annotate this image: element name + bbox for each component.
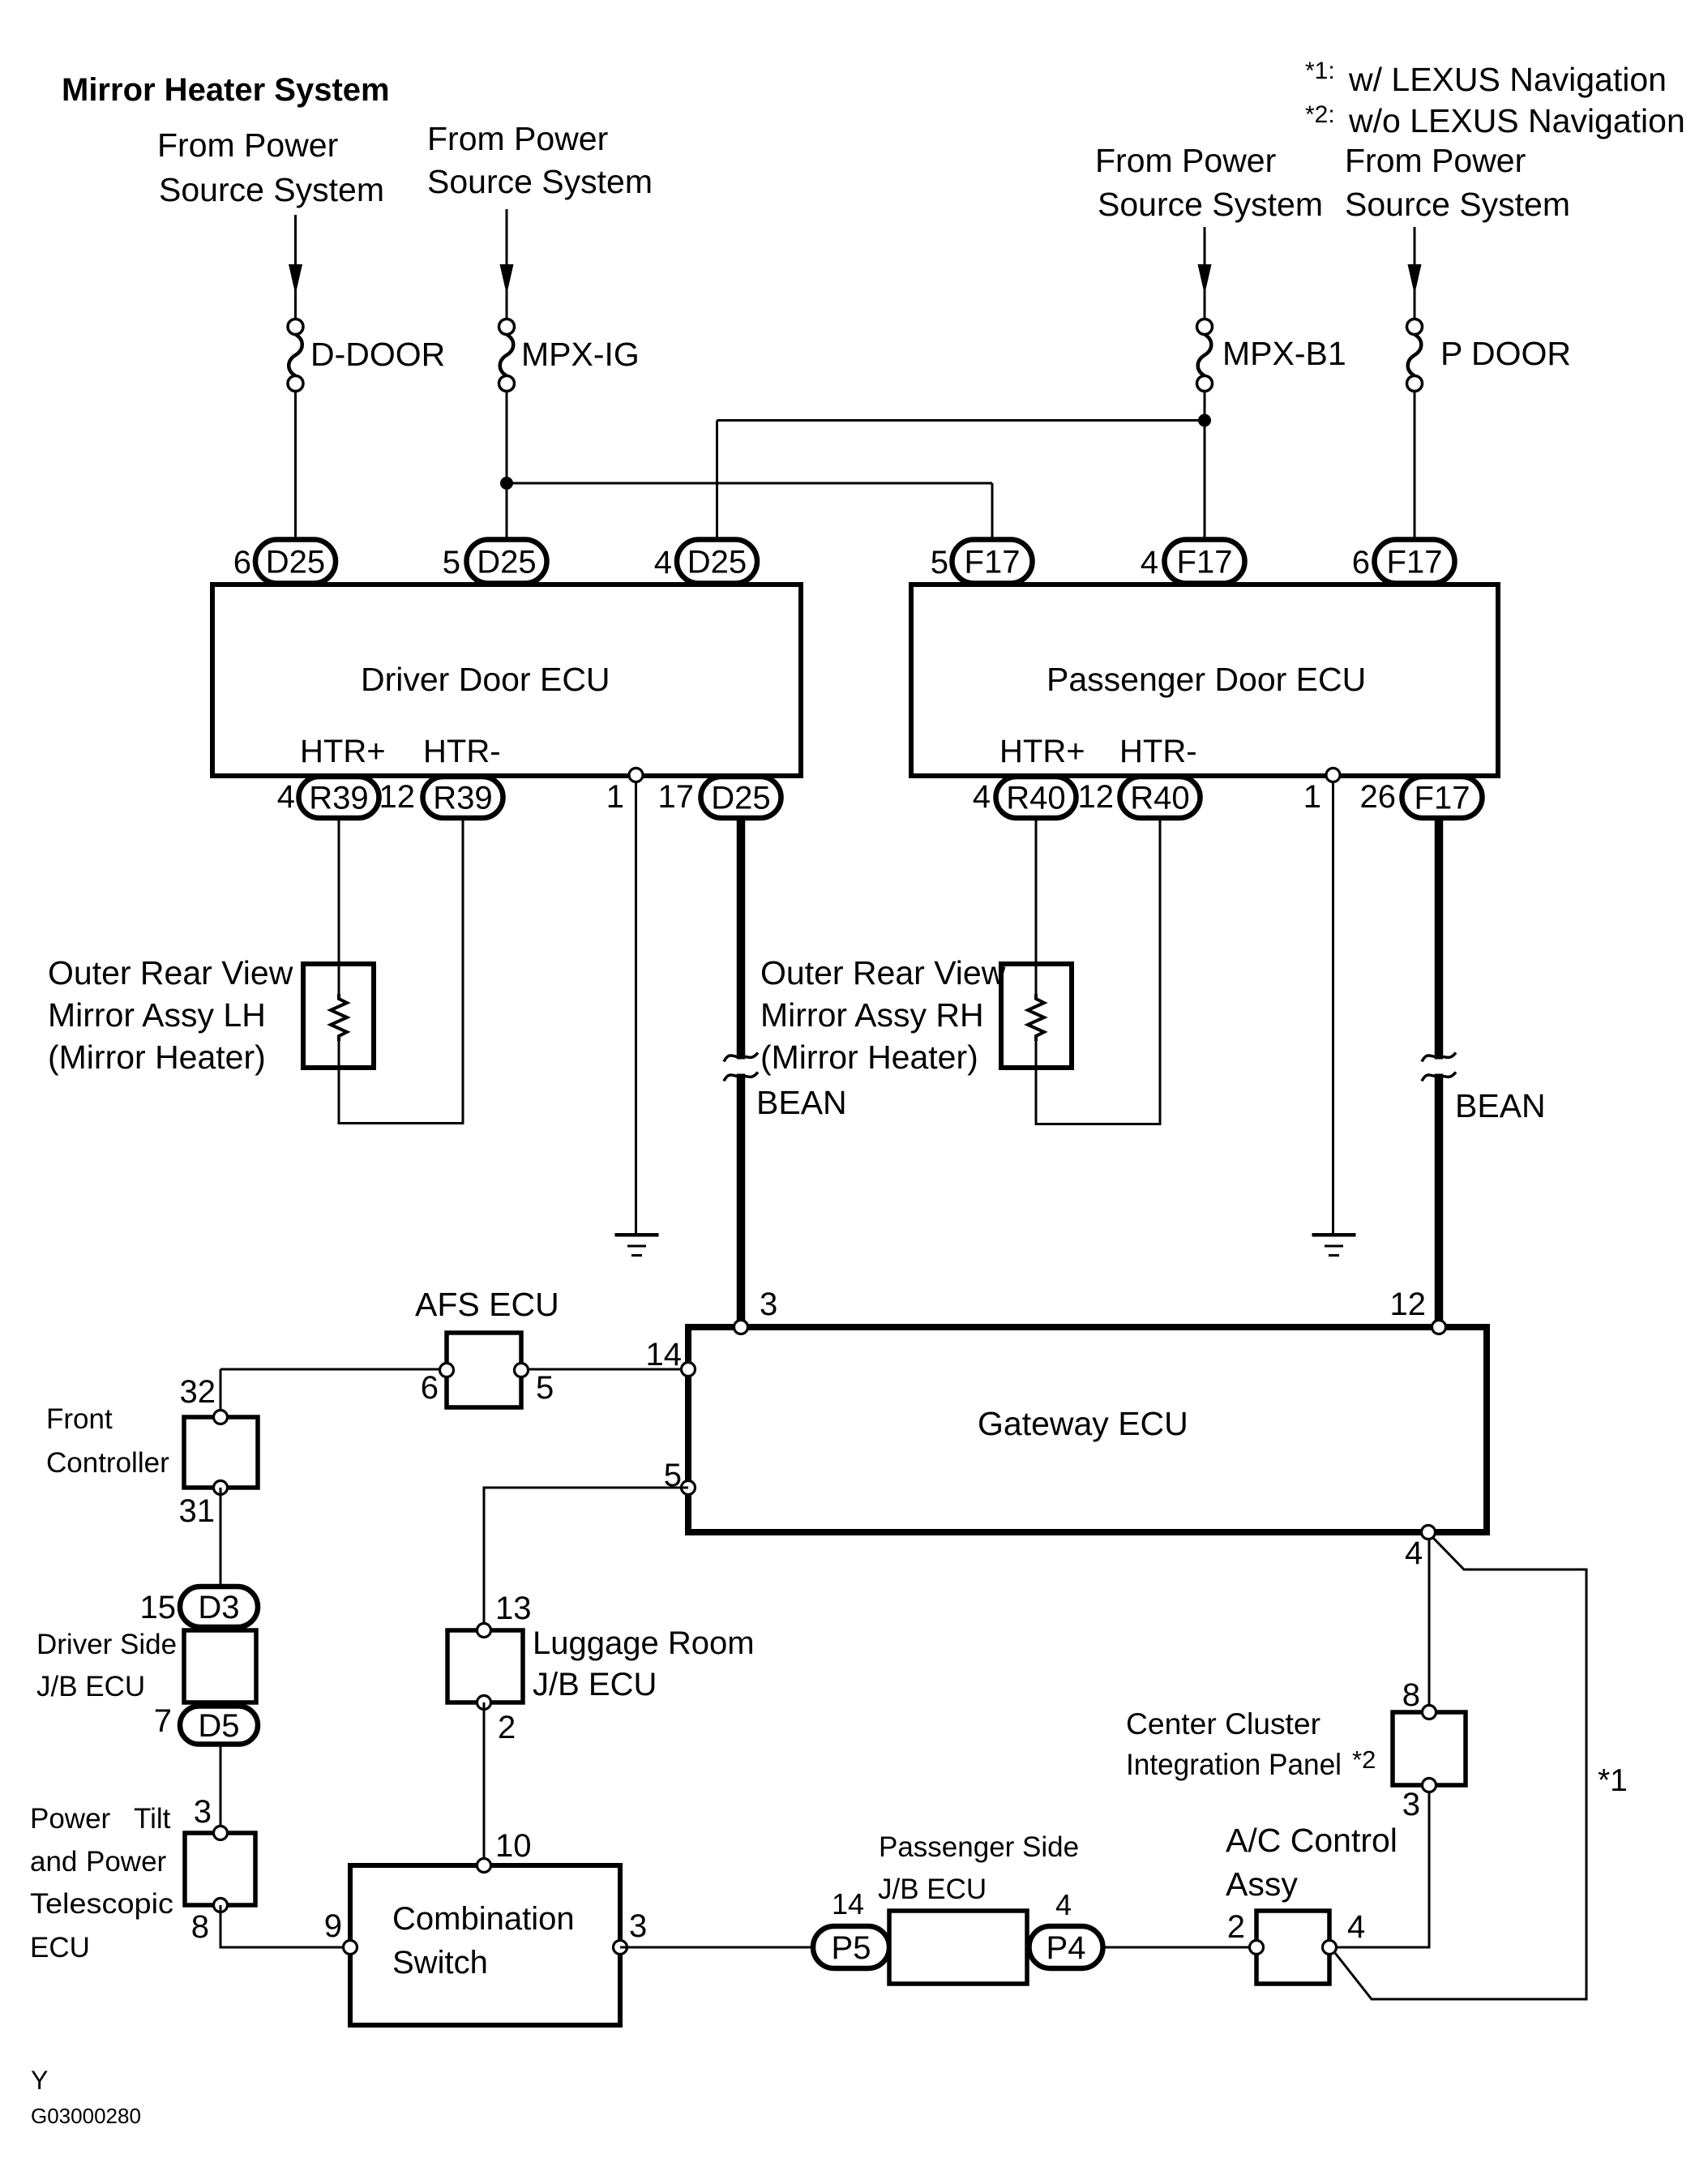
svg-text:P DOOR: P DOOR (1440, 335, 1571, 372)
wire Combination Switch pin 3 to P5 (620, 1946, 813, 1949)
wire Gateway pin 5 to Luggage Room J/B ECU pin 13 (484, 1488, 688, 1630)
svg-text:R40: R40 (1130, 781, 1189, 816)
svg-text:Mirror Assy LH: Mirror Assy LH (48, 996, 266, 1034)
wire driver ECU pin 1 to ground (635, 778, 637, 1233)
connector D25 pin 6 (255, 540, 336, 584)
arrow into fuse P DOOR (1408, 264, 1422, 289)
wire from power source (col 3) (1204, 227, 1206, 265)
arrow into fuse MPX-IG (500, 264, 514, 289)
connector D3 pin 15 (180, 1587, 258, 1627)
mirror heater RH box (1001, 964, 1072, 1068)
Gateway pin 4 node (1422, 1526, 1436, 1540)
wire R39 pin 4 to mirror heater LH (338, 818, 340, 994)
AFS ECU pin 6 node (440, 1364, 454, 1377)
svg-text:4: 4 (1055, 1888, 1072, 1921)
wire Front Controller pin 31 to D3 pin 15 (220, 1488, 222, 1587)
svg-text:Combination: Combination (392, 1901, 575, 1937)
svg-text:*2:: *2: (1305, 101, 1335, 128)
svg-text:J/B ECU: J/B ECU (878, 1874, 987, 1905)
svg-text:4: 4 (1141, 545, 1158, 580)
svg-text:Outer Rear View: Outer Rear View (48, 954, 293, 991)
svg-text:Integration Panel: Integration Panel (1126, 1748, 1342, 1781)
Passenger Door ECU box (911, 585, 1498, 776)
svg-text:17: 17 (658, 779, 695, 815)
Center Cluster Integration Panel box (1393, 1712, 1466, 1785)
A/C Control Assy pin 2 node (1250, 1941, 1264, 1955)
driver ECU pin 1 node (629, 769, 643, 782)
svg-text:Tilt: Tilt (134, 1803, 171, 1835)
Center Cluster pin 3 node (1423, 1779, 1436, 1792)
Gateway pin 12 node (1432, 1321, 1446, 1334)
svg-text:4: 4 (1347, 1909, 1365, 1945)
svg-text:4: 4 (277, 779, 295, 815)
svg-text:3: 3 (194, 1794, 212, 1830)
connector D25 pin 4 (677, 540, 757, 584)
wire fuse MPX-B1 to connector F17 pin 4 (1204, 391, 1206, 542)
svg-text:ECU: ECU (30, 1932, 90, 1963)
svg-text:R39: R39 (309, 781, 368, 816)
wire A/C pin 4 to Center Cluster pin 3 (1329, 1785, 1429, 1947)
svg-text:Mirror Assy RH: Mirror Assy RH (760, 996, 984, 1034)
svg-text:3: 3 (629, 1908, 647, 1944)
svg-text:12: 12 (379, 779, 416, 815)
Passenger Side J/B ECU box (889, 1911, 1027, 1984)
svg-text:8: 8 (1402, 1677, 1420, 1713)
svg-text:26: 26 (1360, 779, 1397, 815)
svg-text:Passenger Door ECU: Passenger Door ECU (1047, 661, 1366, 698)
Combination Switch box (350, 1865, 620, 2025)
connector R40 pin 12 (HTR-) (1120, 777, 1201, 818)
fuse MPX-IG (499, 319, 515, 335)
wire fuse P DOOR to connector F17 pin 6 (1414, 391, 1416, 542)
fuse P DOOR (1407, 319, 1423, 335)
svg-text:F17: F17 (1415, 781, 1470, 816)
Gateway pin 3 node (734, 1321, 748, 1334)
svg-text:w/ LEXUS Navigation: w/ LEXUS Navigation (1348, 61, 1667, 98)
wire MPX-IG node to F17 pin 5 (507, 482, 992, 485)
svg-text:Mirror Heater System: Mirror Heater System (62, 72, 390, 108)
svg-text:MPX-IG: MPX-IG (521, 336, 640, 373)
svg-text:4: 4 (654, 545, 672, 580)
Center Cluster pin 8 node (1423, 1706, 1436, 1719)
svg-text:R40: R40 (1006, 781, 1065, 816)
wire *1 loop Gateway pin 4 to A/C pin 4 (1335, 1538, 1586, 1999)
Gateway pin 14 node (682, 1363, 696, 1377)
svg-text:Assy: Assy (1226, 1865, 1298, 1903)
svg-text:F17: F17 (965, 545, 1021, 580)
connector P4 pin 4 (1029, 1926, 1103, 1968)
wire P4 to A/C Control Assy pin 2 (1102, 1946, 1256, 1949)
Front Controller pin 31 node (214, 1481, 228, 1495)
svg-text:14: 14 (646, 1337, 683, 1372)
svg-text:(Mirror Heater): (Mirror Heater) (48, 1038, 266, 1076)
Combination Switch pin 3 node (614, 1941, 627, 1955)
svg-text:F17: F17 (1177, 545, 1233, 580)
fuse D-DOOR (288, 319, 303, 335)
Gateway ECU box (688, 1327, 1487, 1532)
svg-text:Y: Y (31, 2066, 48, 2095)
svg-text:9: 9 (324, 1908, 342, 1944)
svg-text:BEAN: BEAN (756, 1084, 847, 1121)
svg-text:Source System: Source System (427, 163, 653, 200)
svg-text:2: 2 (1227, 1909, 1245, 1945)
BEAN wire D25 pin 17 to Gateway pin 3 (737, 817, 746, 1327)
svg-text:6: 6 (233, 545, 251, 580)
Power Tilt ECU pin 3 node (214, 1826, 228, 1840)
svg-text:D3: D3 (198, 1590, 239, 1625)
svg-text:*1: *1 (1598, 1763, 1628, 1798)
svg-text:3: 3 (760, 1287, 777, 1322)
svg-text:Source System: Source System (1345, 186, 1570, 223)
Luggage Room J/B ECU pin 2 node (477, 1696, 491, 1710)
svg-text:J/B ECU: J/B ECU (533, 1667, 657, 1702)
wire from power source (col 1) (294, 215, 297, 265)
connector P5 pin 14 (813, 1926, 889, 1968)
svg-text:From Power: From Power (157, 126, 338, 164)
wire fuse D-DOOR to connector D25 pin 6 (294, 391, 297, 542)
svg-text:Source System: Source System (159, 171, 384, 208)
Combination Switch pin 9 node (344, 1941, 357, 1955)
svg-text:6: 6 (421, 1370, 439, 1406)
svg-text:7: 7 (154, 1703, 172, 1739)
A/C Control Assy box (1256, 1911, 1329, 1984)
connector D25 pin 5 (467, 540, 547, 584)
Power Tilt ECU pin 8 node (214, 1899, 228, 1912)
Gateway pin 5 node (682, 1481, 696, 1495)
svg-text:BEAN: BEAN (1455, 1087, 1546, 1124)
svg-text:(Mirror Heater): (Mirror Heater) (760, 1038, 978, 1076)
svg-text:14: 14 (832, 1887, 864, 1921)
svg-text:R39: R39 (433, 781, 492, 816)
resistor mirror heater RH (1028, 994, 1044, 1041)
wire D25 pin 4 to MPX-B1 node (717, 419, 1205, 422)
svg-text:D25: D25 (687, 545, 747, 580)
wire Gateway pin 4 to Center Cluster pin 8 (1428, 1532, 1431, 1712)
svg-text:5: 5 (443, 545, 460, 580)
connector R39 pin 4 (HTR+) (299, 777, 379, 818)
AFS ECU pin 5 node (515, 1364, 529, 1377)
passenger ECU pin 1 node (1326, 769, 1340, 782)
wire Power Tilt ECU pin 8 to Combination Switch pin 9 (220, 1905, 350, 1947)
svg-text:HTR-: HTR- (423, 734, 501, 769)
svg-text:From Power: From Power (1095, 142, 1276, 179)
svg-text:J/B ECU: J/B ECU (36, 1671, 145, 1702)
mirror heater LH box (303, 964, 374, 1068)
svg-text:31: 31 (179, 1493, 216, 1529)
svg-text:and: and (30, 1846, 77, 1878)
connector R40 pin 4 (HTR+) (996, 777, 1076, 818)
svg-text:Driver Door ECU: Driver Door ECU (361, 661, 610, 698)
svg-text:10: 10 (495, 1828, 532, 1864)
svg-text:Outer Rear View: Outer Rear View (760, 954, 1006, 991)
svg-text:Center Cluster: Center Cluster (1126, 1707, 1320, 1741)
svg-text:P4: P4 (1047, 1930, 1086, 1966)
Front Controller pin 32 node (214, 1411, 228, 1424)
svg-text:15: 15 (140, 1590, 177, 1625)
svg-text:32: 32 (180, 1374, 216, 1410)
svg-text:Telescopic: Telescopic (30, 1888, 173, 1920)
svg-text:HTR+: HTR+ (300, 734, 386, 769)
wire mirror heater LH to R39 pin 12 (338, 1041, 340, 1124)
svg-text:D25: D25 (477, 545, 536, 580)
svg-text:5: 5 (931, 545, 948, 580)
svg-text:D25: D25 (266, 545, 325, 580)
Luggage Room J/B ECU pin 13 node (477, 1624, 491, 1638)
svg-text:4: 4 (1405, 1535, 1423, 1571)
svg-text:1: 1 (606, 779, 624, 815)
connector F17 pin 5 (952, 540, 1033, 584)
wire R40 pin 4 to mirror heater RH (1035, 818, 1038, 994)
wire mirror heater RH to R40 pin 12 (1035, 1041, 1038, 1125)
svg-text:w/o LEXUS Navigation: w/o LEXUS Navigation (1348, 102, 1685, 139)
svg-text:Controller: Controller (46, 1447, 169, 1479)
arrow into fuse MPX-B1 (1198, 264, 1212, 289)
wire from power source (col 2) (506, 209, 508, 265)
connector F17 pin 4 (1165, 540, 1245, 584)
svg-text:6: 6 (1352, 545, 1370, 580)
svg-text:Power: Power (86, 1846, 167, 1878)
svg-text:3: 3 (1402, 1787, 1420, 1822)
wire D5 pin 7 to Power Tilt ECU pin 3 (220, 1744, 222, 1833)
svg-text:D25: D25 (711, 781, 770, 816)
svg-text:Power: Power (30, 1803, 111, 1835)
svg-text:Switch: Switch (392, 1945, 488, 1981)
resistor mirror heater LH (331, 994, 347, 1041)
svg-text:A/C Control: A/C Control (1226, 1822, 1398, 1859)
arrow into fuse D-DOOR (289, 264, 302, 289)
svg-text:13: 13 (495, 1591, 532, 1626)
wire Front Controller pin 32 to AFS ECU pin 6 (220, 1368, 447, 1371)
svg-text:2: 2 (498, 1710, 516, 1745)
wire from power source (col 4) (1414, 227, 1416, 265)
svg-text:D-DOOR: D-DOOR (310, 336, 445, 373)
svg-text:Front: Front (46, 1403, 113, 1435)
break symbol on BEAN wire (RH) (1433, 1060, 1445, 1074)
fuse MPX-B1 (1197, 319, 1213, 335)
svg-text:AFS ECU: AFS ECU (415, 1286, 559, 1323)
svg-text:5: 5 (536, 1370, 554, 1406)
ground (passenger ECU pin 1) (1312, 1233, 1356, 1237)
svg-text:F17: F17 (1387, 545, 1443, 580)
Combination Switch pin 10 node (477, 1859, 491, 1873)
svg-text:*1:: *1: (1305, 58, 1335, 84)
junction node on MPX-IG wire (500, 477, 513, 490)
wire Luggage Room J/B ECU pin 2 to Combination Switch pin 10 (483, 1702, 486, 1865)
Power Tilt and Power Telescopic ECU box (185, 1833, 255, 1905)
svg-text:Source System: Source System (1098, 186, 1323, 223)
Front Controller box (184, 1417, 258, 1488)
svg-text:12: 12 (1078, 779, 1115, 815)
junction node on MPX-B1 wire (1198, 414, 1211, 427)
svg-text:Luggage Room: Luggage Room (533, 1625, 755, 1661)
connector D25 pin 17 (701, 777, 781, 818)
svg-text:D5: D5 (198, 1708, 239, 1744)
BEAN wire F17 pin 26 to Gateway pin 12 (1435, 817, 1444, 1327)
Luggage Room J/B ECU box (447, 1630, 523, 1702)
Driver Door ECU box (212, 585, 801, 776)
svg-text:Driver Side: Driver Side (36, 1629, 177, 1660)
wire fuse MPX-IG to connector D25 pin 5 (506, 391, 508, 542)
connector F17 pin 26 (1402, 777, 1483, 818)
svg-text:8: 8 (191, 1909, 209, 1945)
ground (driver ECU pin 1) (615, 1233, 659, 1237)
svg-text:*2: *2 (1352, 1745, 1376, 1774)
Driver Side J/B ECU box (184, 1630, 256, 1702)
connector F17 pin 6 (1375, 540, 1455, 584)
svg-text:MPX-B1: MPX-B1 (1222, 335, 1346, 372)
wire AFS ECU pin 5 to Gateway pin 14 (521, 1368, 688, 1371)
connector R39 pin 12 (HTR-) (423, 777, 503, 818)
A/C Control Assy pin 4 node (1323, 1941, 1337, 1955)
connector D5 pin 7 (180, 1707, 258, 1745)
wire passenger ECU pin 1 to ground (1332, 778, 1334, 1233)
svg-text:HTR+: HTR+ (999, 734, 1085, 769)
svg-text:4: 4 (973, 779, 991, 815)
AFS ECU box (447, 1333, 521, 1407)
svg-text:From Power: From Power (1345, 142, 1526, 179)
svg-text:12: 12 (1390, 1287, 1427, 1322)
svg-text:G03000280: G03000280 (31, 2104, 141, 2128)
svg-text:HTR-: HTR- (1119, 734, 1197, 769)
break symbol on BEAN wire (LH) (735, 1060, 747, 1074)
svg-text:P5: P5 (832, 1930, 871, 1966)
svg-text:1: 1 (1303, 779, 1321, 815)
svg-text:From Power: From Power (427, 120, 608, 157)
svg-text:Gateway ECU: Gateway ECU (978, 1405, 1188, 1442)
svg-text:Passenger Side: Passenger Side (879, 1831, 1079, 1863)
